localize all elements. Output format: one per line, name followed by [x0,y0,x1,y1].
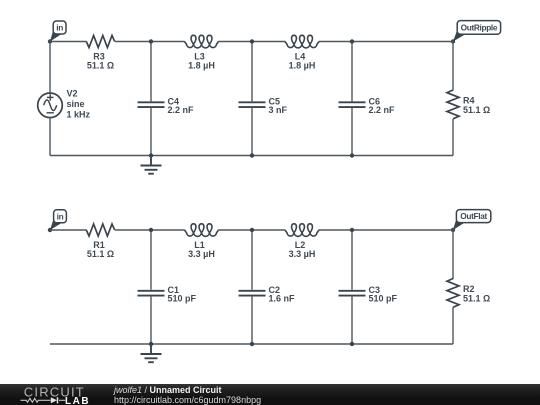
wire capacitor C4 bottom lead [150,108,152,155]
svg-text:OutFlat: OutFlat [460,211,487,221]
wire resistor R3 to node [115,41,151,43]
wire node to inductor L3 [151,41,185,43]
svg-text:2.2 nF: 2.2 nF [168,105,195,115]
svg-text:1.8 µH: 1.8 µH [188,61,215,71]
wire bottom ground rail [50,343,453,345]
voltage source V2 [38,93,63,118]
wire capacitor C5 top lead [251,42,253,102]
wire output node down to resistor R4 [452,42,454,91]
wire resistor R1 to node [115,229,151,231]
wire capacitor C2 top lead [251,230,253,290]
inductor L4 [285,35,319,48]
wire from input node to resistor R3 [50,41,87,43]
wire resistor R2 to bottom rail [452,307,454,344]
footer credit text [114,386,261,405]
wire inductor L2 to node [319,229,352,231]
inductor L2 [285,224,319,237]
svg-text:V2: V2 [67,89,78,99]
node junction ripple-filter top wire x=352 [350,39,354,43]
wire capacitor C4 top lead [150,42,152,102]
svg-text:LAB: LAB [65,396,90,405]
node junction ripple-filter rail x=352 [350,153,354,157]
svg-text:in: in [57,211,64,221]
svg-text:sine: sine [67,99,85,109]
capacitor C6 [339,102,366,107]
ground [141,156,162,174]
wire output node down to resistor R2 [452,230,454,279]
capacitor C4 [138,102,165,107]
svg-text:51.1 Ω: 51.1 Ω [463,105,490,115]
resistor R4 [447,90,459,119]
wire capacitor C1 bottom lead [150,297,152,344]
wire capacitor C6 top lead [351,42,353,102]
wire capacitor C6 bottom lead [351,108,353,155]
wire from input node to resistor R1 [50,229,87,231]
svg-text:3.3 µH: 3.3 µH [289,249,316,259]
wire bottom ground rail [50,155,453,157]
svg-text:R4: R4 [463,96,475,106]
net flag in (bottom) pointer [50,218,62,231]
node junction flat-filter top wire x=252 [250,228,254,232]
svg-text:1 kHz: 1 kHz [67,109,91,119]
node junction OutRipple [451,39,455,43]
wire inductor L1 to node [218,229,252,231]
wire inductor L3 to node [218,41,252,43]
wire node to inductor L2 [252,229,285,231]
svg-text:510 pF: 510 pF [369,293,398,303]
wire capacitor C1 top lead [150,230,152,290]
node junction flat-filter rail x=252 [250,342,254,346]
resistor R3 [86,36,114,48]
net flag OutRipple pointer [453,29,466,42]
net flag in (top) pointer [50,29,62,42]
resistor R2 [447,279,459,308]
capacitor C5 [239,102,266,107]
node junction in bottom [48,228,52,232]
logo resistor squiggle wire [21,398,66,402]
wire inductor L4 to node [319,41,352,43]
logo diode symbol [51,397,57,403]
node junction OutFlat [451,228,455,232]
wire node to output corner [352,41,453,43]
CircuitLab logo wordmark [0,384,110,405]
net flag in (bottom) [54,210,67,223]
wire node to inductor L4 [252,41,285,43]
node junction ripple-filter top wire x=151 [149,39,153,43]
inductor L3 [185,35,219,48]
capacitor C1 [138,291,165,296]
net flag OutFlat [456,210,490,223]
wire input node down to source V2 [49,42,51,94]
svg-text:51.1 Ω: 51.1 Ω [463,293,490,303]
svg-text:2.2 nF: 2.2 nF [369,105,396,115]
node junction ripple-filter rail x=151 [149,153,153,157]
svg-text:510 pF: 510 pF [168,293,197,303]
svg-text:3.3 µH: 3.3 µH [188,249,215,259]
net flag in (top) [53,21,66,34]
node junction flat-filter rail x=151 [149,342,153,346]
capacitor C3 [339,291,366,296]
wire capacitor C5 bottom lead [251,108,253,155]
svg-text:1.6 nF: 1.6 nF [269,293,296,303]
node junction ripple-filter top wire x=252 [250,39,254,43]
node junction ripple-filter rail x=252 [250,153,254,157]
net flag OutFlat pointer [453,217,465,230]
svg-text:3 nF: 3 nF [269,105,288,115]
wire source V2 to bottom rail [49,117,51,155]
wire node to output corner [352,229,453,231]
capacitor C2 [239,291,266,296]
wire capacitor C3 top lead [351,230,353,290]
wire capacitor C2 bottom lead [251,297,253,344]
resistor R1 [86,224,114,236]
node junction flat-filter rail x=352 [350,342,354,346]
node junction in top [48,39,52,43]
node junction flat-filter top wire x=352 [350,228,354,232]
net flag OutRipple [457,21,500,35]
wire node to inductor L1 [151,229,185,231]
ground [141,344,162,362]
svg-text:51.1 Ω: 51.1 Ω [87,61,114,71]
wire resistor R4 to bottom rail [452,119,454,156]
node junction flat-filter top wire x=151 [149,228,153,232]
svg-text:51.1 Ω: 51.1 Ω [87,249,114,259]
svg-text:OutRipple: OutRipple [461,23,498,33]
svg-text:1.8 µH: 1.8 µH [289,61,316,71]
svg-text:in: in [56,23,63,33]
wire capacitor C3 bottom lead [351,297,353,344]
inductor L1 [185,224,219,237]
